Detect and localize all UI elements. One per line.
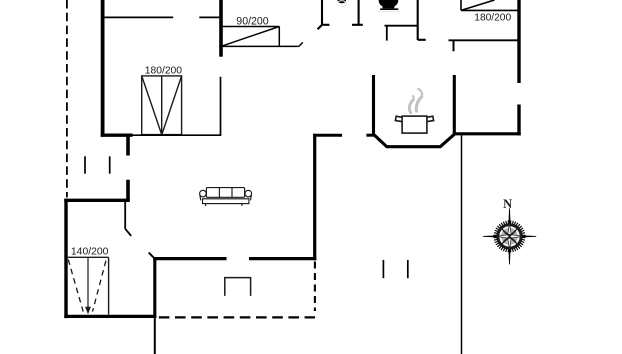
terrace dashed vertical x=314.9 bbox=[314, 262, 316, 312]
wall hall horizontal y=258.6 left segment bbox=[153, 257, 226, 260]
svg-text:140/200: 140/200 bbox=[71, 247, 109, 258]
kitchen bay walls bbox=[374, 75, 455, 147]
boundary line below x=154.8 bbox=[154, 318, 156, 354]
wall x=128 segment upper bbox=[126, 135, 130, 155]
spokes bbox=[502, 229, 517, 244]
tick ring bbox=[494, 220, 526, 252]
wall thin vertical x=220.5 bedroom2 right bbox=[220, 77, 222, 135]
wall left-top vertical bbox=[101, 0, 105, 137]
toilet (cut off at top) bbox=[338, 0, 347, 3]
window 90/200 symbol bbox=[219, 27, 303, 47]
wall interior horizontal y=40.3 right room bbox=[449, 39, 519, 41]
door tick at hall corner bbox=[149, 253, 155, 259]
svg-text:180/200: 180/200 bbox=[145, 66, 182, 77]
wall horizontal y=135.2 at x=313.5-342 bbox=[313, 134, 342, 137]
bed 180/200 box bbox=[142, 76, 182, 135]
window mark pair left bbox=[84, 156, 86, 173]
wall horizontal y=135.2 at x=366-373.5 bbox=[366, 134, 374, 137]
washbasin (filled) bbox=[379, 0, 399, 8]
wall horizontal y=133.8 right room bottom bbox=[453, 132, 521, 135]
svg-text:90/200: 90/200 bbox=[236, 16, 269, 28]
wall right exterior x=519 lower segment (window gap above) bbox=[517, 105, 520, 136]
wall interior horizontal y=17.4 left segment bbox=[103, 16, 174, 18]
wall interior horizontal y=17.4 right segment bbox=[199, 16, 220, 18]
plot line vertical x=461.5 bbox=[461, 135, 463, 354]
wall bathroom/kitchen divider x=417.7 bbox=[418, 0, 426, 40]
wall stub x=453.5 below y=40 bbox=[453, 40, 455, 51]
wall left exterior lower x=66 bbox=[64, 199, 67, 319]
cooking pot bbox=[395, 116, 433, 133]
window 180/200 top-right symbol bbox=[461, 0, 519, 10]
wall horizontal y=200.3 bbox=[64, 199, 130, 202]
wall bottom y=316.4 bbox=[64, 315, 156, 318]
door line with swing tick at x=125.2 bbox=[125, 200, 131, 236]
hall table bbox=[225, 278, 251, 296]
long arms bbox=[508, 208, 511, 264]
washbasin base line bbox=[380, 8, 398, 10]
wall vertical x=154.8 bbox=[153, 257, 156, 318]
wall bathroom-left vertical x=322 with foot and door tick bbox=[318, 0, 330, 29]
dashed overhang line x=66.9 bbox=[66, 0, 68, 197]
svg-text:N: N bbox=[503, 197, 512, 211]
wall x=128 segment lower bbox=[126, 180, 130, 201]
terrace dashed horizontal y=317.4 bbox=[159, 316, 315, 318]
steam bbox=[409, 89, 422, 113]
kitchen counter lines bbox=[385, 26, 418, 41]
svg-text:180/200: 180/200 bbox=[474, 13, 511, 24]
entrance door dashed diagonals bbox=[68, 259, 106, 311]
wall bedroom divider vertical x=221 bbox=[219, 0, 223, 57]
entrance door center arrow bbox=[87, 257, 89, 308]
wall hall horizontal y=258.6 right segment bbox=[249, 257, 316, 260]
wall living-room right vertical x=314.7 bbox=[313, 134, 316, 261]
wall horizontal y=135.2 thin segment bbox=[133, 134, 222, 136]
wall bathroom-right vertical x=358.6 with foot bbox=[352, 0, 363, 25]
wall horizontal y=135.2 thick segment bbox=[101, 133, 133, 136]
sofa bbox=[200, 188, 252, 206]
compass rose bbox=[483, 197, 536, 265]
window mark pair bottom (terrace) bbox=[382, 260, 384, 278]
star blades bbox=[497, 223, 523, 249]
ring band bbox=[498, 225, 521, 248]
entrance door 140/200 box bbox=[68, 257, 109, 314]
wall right exterior x=519 upper segment bbox=[517, 0, 520, 83]
